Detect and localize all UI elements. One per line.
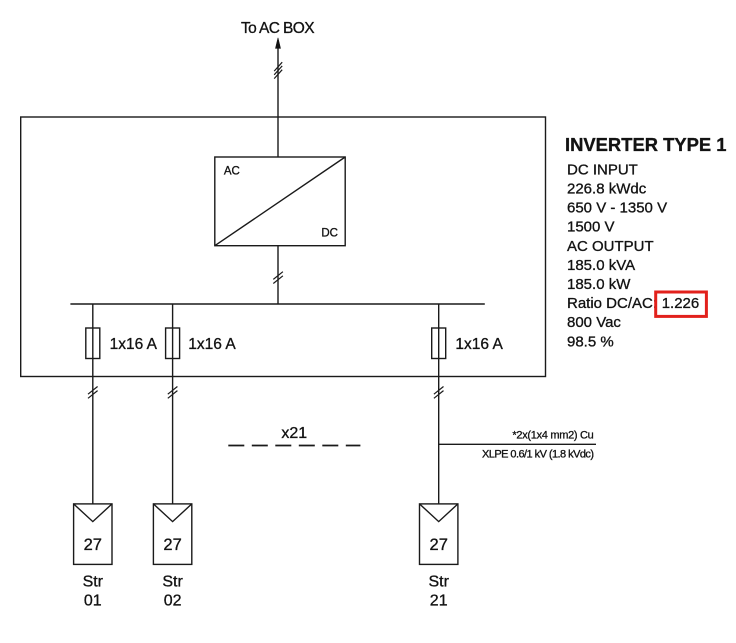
- svg-text:Str: Str: [83, 574, 104, 591]
- svg-text:21: 21: [430, 593, 448, 610]
- fuse F2: [166, 328, 180, 359]
- PV string module symbol: string 21: [420, 504, 458, 565]
- svg-text:DC INPUT: DC INPUT: [567, 161, 638, 178]
- dashed continuation line: [228, 445, 360, 447]
- svg-text:1x16 A: 1x16 A: [110, 336, 158, 353]
- svg-text:AC OUTPUT: AC OUTPUT: [567, 238, 654, 255]
- DC bus: [70, 303, 484, 305]
- svg-text:800 Vac: 800 Vac: [567, 314, 621, 331]
- svg-text:x21: x21: [281, 425, 307, 442]
- svg-text:1x16 A: 1x16 A: [188, 336, 236, 353]
- svg-text:1.226: 1.226: [662, 295, 700, 312]
- double slash on string 01 cable: [88, 387, 98, 399]
- svg-text:98.5 %: 98.5 %: [567, 333, 614, 350]
- inverter U1 AC/DC converter box: [215, 157, 345, 246]
- svg-text:INVERTER TYPE 1: INVERTER TYPE 1: [565, 134, 726, 155]
- svg-text:Str: Str: [428, 574, 449, 591]
- double slash on string 21 cable: [434, 387, 444, 399]
- wire: string 01 drop: [92, 304, 94, 504]
- PV string module symbol: string 02: [153, 504, 191, 565]
- PV string module symbol: string 01: [74, 504, 112, 565]
- wire: string 02 drop: [172, 304, 174, 504]
- svg-text:650 V - 1350 V: 650 V - 1350 V: [567, 200, 667, 217]
- double slash on DC feeder: [273, 272, 283, 284]
- wire: converter DC terminal to bus: [277, 246, 279, 304]
- inverter enclosure box: [21, 117, 546, 377]
- spec text block: [567, 161, 699, 350]
- svg-text:226.8 kWdc: 226.8 kWdc: [567, 181, 647, 198]
- wire: AC output riser to AC box: [277, 44, 279, 157]
- red highlight box around ratio value 1.226: [656, 292, 707, 316]
- svg-text:Ratio DC/AC:: Ratio DC/AC:: [567, 295, 657, 312]
- svg-text:Str: Str: [162, 574, 183, 591]
- svg-text:To AC BOX: To AC BOX: [241, 20, 315, 37]
- cable spec leader line: [439, 443, 596, 445]
- fuse F1: [86, 328, 100, 359]
- svg-text:185.0 kW: 185.0 kW: [567, 276, 631, 293]
- svg-text:01: 01: [84, 593, 102, 610]
- svg-text:185.0 kVA: 185.0 kVA: [567, 257, 635, 274]
- svg-text:02: 02: [164, 593, 182, 610]
- svg-text:*2x(1x4 mm2) Cu: *2x(1x4 mm2) Cu: [512, 429, 593, 441]
- svg-text:1x16 A: 1x16 A: [455, 336, 503, 353]
- fuse F3: [432, 328, 446, 359]
- wire: string 21 drop: [438, 304, 440, 504]
- svg-text:27: 27: [430, 536, 448, 554]
- svg-text:DC: DC: [321, 228, 338, 240]
- arrow head: [276, 38, 281, 49]
- triple slash (3-phase marker) on AC riser: [274, 62, 282, 78]
- svg-text:AC: AC: [224, 166, 240, 178]
- double slash on string 02 cable: [168, 387, 178, 399]
- svg-text:27: 27: [163, 536, 181, 554]
- svg-text:XLPE 0.6/1 kV (1.8 kVdc): XLPE 0.6/1 kV (1.8 kVdc): [482, 448, 594, 460]
- svg-text:27: 27: [84, 536, 102, 554]
- svg-text:1500 V: 1500 V: [567, 219, 615, 236]
